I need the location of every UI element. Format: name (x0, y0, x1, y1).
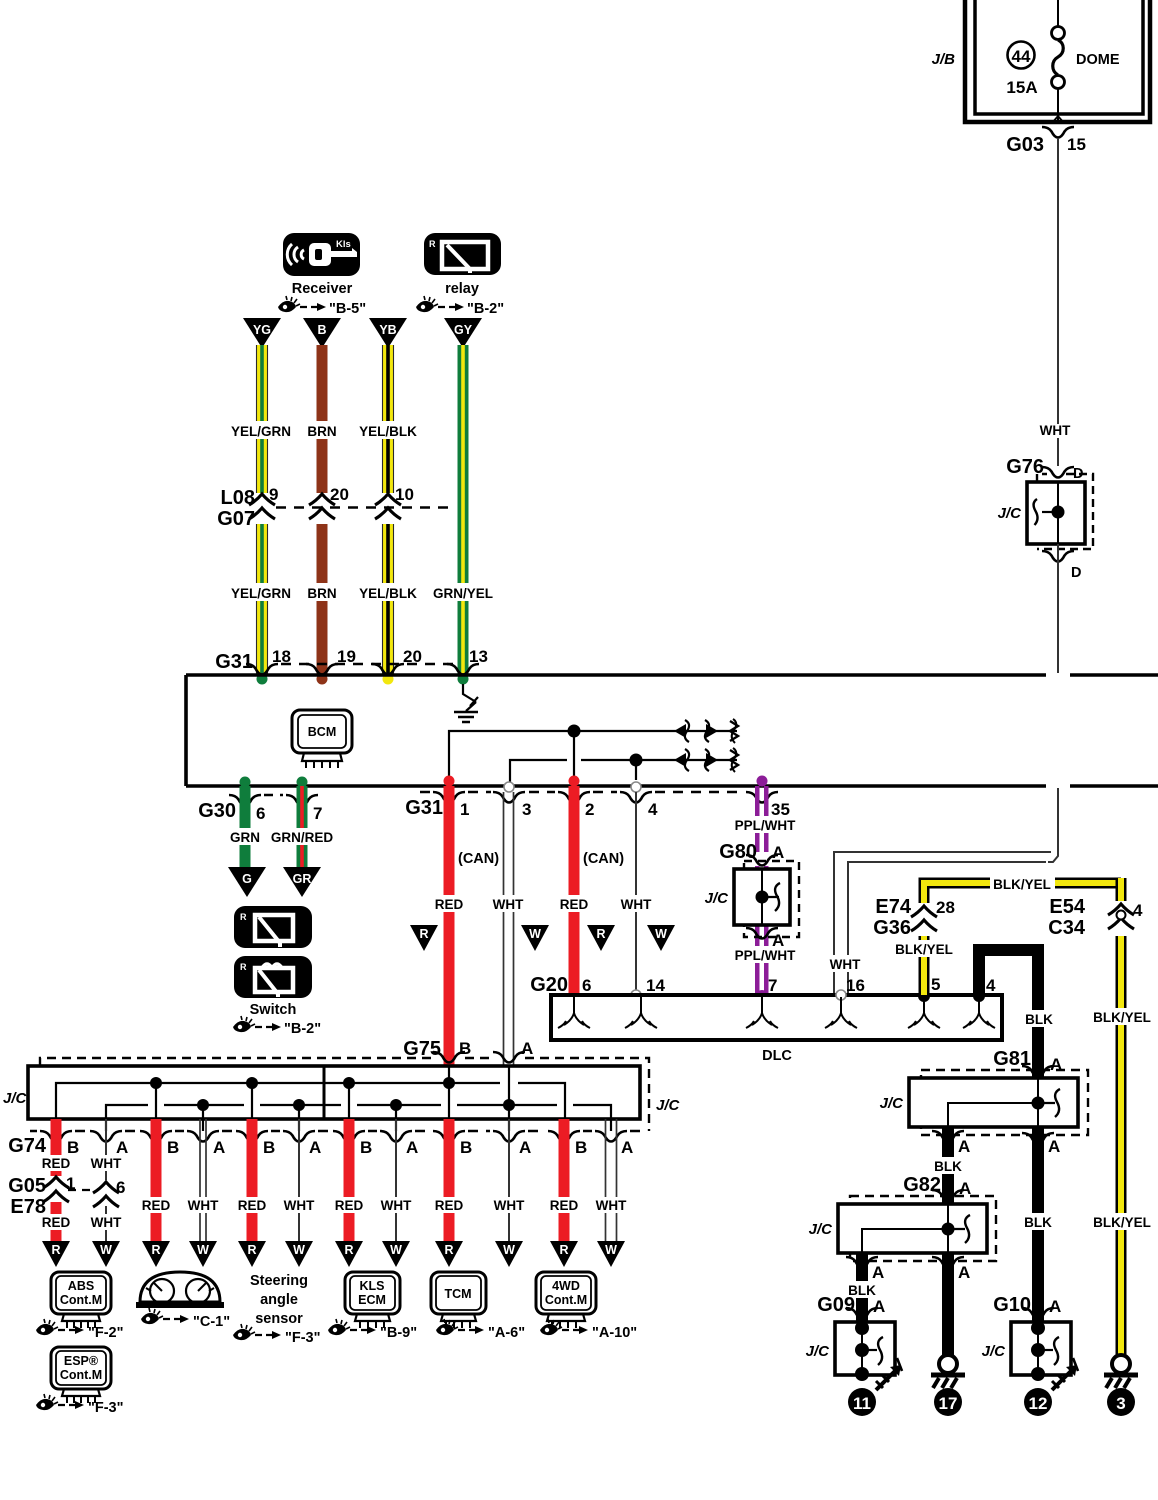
svg-text:A: A (873, 1297, 885, 1316)
svg-text:GRN/YEL: GRN/YEL (433, 586, 493, 601)
svg-text:4WD: 4WD (552, 1279, 580, 1293)
svg-text:G09: G09 (817, 1294, 855, 1316)
svg-text:G81: G81 (993, 1048, 1031, 1070)
svg-text:G80: G80 (719, 841, 757, 863)
destination triangle GY (444, 318, 482, 348)
eye ref B-9 (328, 1319, 417, 1341)
svg-text:PPL/WHT: PPL/WHT (735, 948, 796, 963)
connector G80 A (bottom) (746, 928, 784, 950)
BCM box outline (186, 675, 1158, 786)
svg-text:J/C: J/C (998, 505, 1023, 522)
connector G81 A (993, 1048, 1062, 1077)
ground number 12 (1024, 1388, 1052, 1416)
junction block J/B fuse box (965, 0, 1150, 122)
svg-text:J/B: J/B (932, 51, 956, 68)
junction connector G82 J/C box (809, 1196, 996, 1261)
wire GRN from G30 pin 6 (229, 786, 262, 868)
svg-text:"B-2": "B-2" (284, 1021, 321, 1037)
svg-text:R: R (429, 239, 436, 249)
wire RED B4 (330, 1119, 368, 1241)
svg-text:G31: G31 (405, 797, 443, 819)
svg-text:YEL/BLK: YEL/BLK (359, 424, 417, 439)
svg-text:W: W (197, 1243, 209, 1257)
svg-text:B: B (167, 1138, 179, 1157)
svg-text:L08: L08 (221, 487, 255, 509)
svg-text:WHT: WHT (494, 1198, 525, 1213)
svg-text:Receiver: Receiver (292, 281, 353, 297)
svg-text:12: 12 (1029, 1394, 1048, 1413)
svg-text:RED: RED (142, 1198, 171, 1213)
svg-text:G74: G74 (8, 1135, 47, 1157)
wire RED B3 (233, 1119, 271, 1241)
keyless receiver icon (283, 233, 360, 276)
svg-text:3: 3 (1116, 1394, 1125, 1413)
svg-text:WHT: WHT (596, 1198, 627, 1213)
svg-text:BLK/YEL: BLK/YEL (993, 877, 1051, 892)
svg-text:R: R (247, 1243, 256, 1257)
svg-text:7: 7 (768, 976, 777, 995)
wire WHT A4 (375, 1119, 418, 1241)
DLC pin 5 (908, 990, 940, 1028)
svg-text:A: A (872, 1263, 884, 1282)
svg-text:G75: G75 (403, 1038, 441, 1060)
svg-text:Switch: Switch (250, 1002, 297, 1018)
eye ref F-3 (steering) (233, 1324, 321, 1346)
ABS Cont.M module (51, 1272, 111, 1328)
svg-text:E78: E78 (10, 1196, 46, 1218)
svg-text:BLK/YEL: BLK/YEL (1093, 1010, 1151, 1025)
svg-text:W: W (390, 1243, 402, 1257)
svg-text:WHT: WHT (1040, 423, 1071, 438)
connector G76 D (bottom) (1042, 551, 1081, 581)
svg-text:R: R (444, 1243, 453, 1257)
svg-text:DLC: DLC (762, 1048, 792, 1064)
svg-text:E54: E54 (1049, 896, 1085, 918)
DLC pin 4 (963, 990, 995, 1028)
svg-text:A: A (519, 1138, 531, 1157)
wire WHT from G03 down to G76 (1057, 138, 1059, 424)
G81 exits A A (932, 1131, 1060, 1156)
J/C internal bottom bus (106, 1099, 611, 1131)
svg-text:WHT: WHT (830, 957, 861, 972)
svg-text:DOME: DOME (1076, 52, 1120, 68)
connector G31 bottom row (405, 776, 790, 820)
eye ref to B-2 (416, 296, 504, 317)
svg-text:B: B (460, 1138, 472, 1157)
connector G03 (1006, 127, 1086, 156)
wire WHT A1 (85, 1119, 128, 1241)
internal CAN bus line 1 (449, 719, 738, 786)
BCM module icon (292, 710, 352, 768)
DLC pin 14 (625, 997, 657, 1028)
DLC pin 6 (558, 997, 590, 1028)
junction connector G80 J/C box (705, 861, 799, 937)
svg-text:"B-9": "B-9" (380, 1325, 417, 1341)
svg-text:B: B (263, 1138, 275, 1157)
svg-text:R: R (240, 962, 247, 972)
svg-text:11: 11 (853, 1394, 871, 1413)
svg-text:7: 7 (313, 804, 322, 823)
svg-text:(CAN): (CAN) (583, 851, 624, 867)
svg-text:"F-3": "F-3" (285, 1330, 321, 1346)
svg-text:WHT: WHT (284, 1198, 315, 1213)
inline connector E74 G36 (873, 896, 955, 939)
svg-text:16: 16 (846, 976, 865, 995)
wire color labels row 1 (230, 421, 418, 439)
svg-text:BLK/YEL: BLK/YEL (1093, 1215, 1151, 1230)
svg-text:4: 4 (1133, 901, 1143, 920)
svg-text:J/C: J/C (982, 1343, 1007, 1360)
svg-text:D: D (1071, 565, 1081, 581)
wire WHT A6 (590, 1119, 633, 1241)
svg-text:19: 19 (337, 647, 356, 666)
fuse element symbol (1052, 0, 1065, 123)
svg-text:4: 4 (986, 976, 996, 995)
svg-text:9: 9 (269, 485, 278, 504)
rear wiper relay icon (424, 233, 501, 275)
svg-text:RED: RED (550, 1198, 579, 1213)
svg-text:BLK: BLK (1024, 1215, 1052, 1230)
svg-text:18: 18 (272, 647, 291, 666)
svg-text:"F-2": "F-2" (88, 1325, 124, 1341)
svg-text:2: 2 (585, 800, 594, 819)
svg-text:E74: E74 (875, 896, 911, 918)
svg-text:B: B (575, 1138, 587, 1157)
svg-text:20: 20 (403, 647, 422, 666)
svg-text:13: 13 (469, 647, 488, 666)
svg-text:J/C: J/C (806, 1343, 831, 1360)
wire RED B6 (545, 1119, 583, 1241)
wire WHT G31 pin3 to G75 A (hollow) (487, 792, 530, 1066)
destination triangle YB (369, 318, 407, 348)
svg-text:44: 44 (1012, 47, 1031, 66)
svg-text:B: B (459, 1039, 471, 1058)
svg-text:R: R (596, 927, 605, 941)
eye ref A-10 (540, 1319, 637, 1341)
svg-text:B: B (67, 1138, 79, 1157)
svg-text:W: W (529, 927, 541, 941)
svg-text:G31: G31 (215, 651, 253, 673)
svg-text:YEL/GRN: YEL/GRN (231, 424, 291, 439)
svg-text:GR: GR (293, 872, 312, 886)
ground number 11 (848, 1388, 876, 1416)
body ground arrow at G09 (876, 1358, 902, 1390)
ground number 17 (934, 1388, 962, 1416)
KLS ECM module (345, 1272, 400, 1328)
inline connector G05 E78 (8, 1174, 125, 1218)
svg-text:6: 6 (256, 804, 265, 823)
wire GRN/YEL vertical (458, 345, 469, 685)
svg-text:J/C: J/C (656, 1097, 681, 1114)
svg-text:1: 1 (66, 1174, 75, 1193)
svg-text:W: W (605, 1243, 617, 1257)
connector G10 A (993, 1294, 1061, 1319)
J/C internal verticals (156, 1066, 509, 1131)
eye ref F-3 (ESP) (36, 1394, 124, 1416)
wire RED G31 pin1 to G75 B (430, 786, 499, 1066)
svg-text:A: A (213, 1138, 225, 1157)
svg-text:Cont.M: Cont.M (60, 1368, 102, 1382)
TCM module (431, 1272, 486, 1328)
svg-text:"A-10": "A-10" (592, 1325, 637, 1341)
svg-text:RED: RED (435, 897, 464, 912)
svg-text:A: A (1048, 1137, 1060, 1156)
wire BLK/YEL E54 C34 down right side (1090, 878, 1154, 1355)
svg-text:RED: RED (335, 1198, 364, 1213)
svg-text:J/C: J/C (809, 1221, 834, 1238)
svg-text:Cont.M: Cont.M (60, 1293, 102, 1307)
svg-text:RED: RED (42, 1156, 71, 1171)
body ground arrow at G10 (1052, 1358, 1078, 1390)
wire BLK from DLC 4 loop to G81 (979, 950, 1038, 1078)
svg-text:6: 6 (116, 1178, 125, 1197)
svg-text:A: A (1049, 1297, 1061, 1316)
svg-text:17: 17 (939, 1394, 958, 1413)
destination triangle W (pin4) (647, 925, 675, 951)
destination triangle G (228, 867, 266, 897)
svg-text:A: A (309, 1138, 321, 1157)
svg-text:WHT: WHT (621, 897, 652, 912)
svg-text:J/C: J/C (3, 1090, 28, 1107)
svg-text:ECM: ECM (358, 1293, 386, 1307)
svg-text:(CAN): (CAN) (458, 851, 499, 867)
chassis ground 17 (931, 1355, 965, 1388)
svg-text:A: A (406, 1138, 418, 1157)
svg-text:YEL/GRN: YEL/GRN (231, 586, 291, 601)
svg-text:G05: G05 (8, 1175, 46, 1197)
wire GRN/RED from G30 pin 7 (271, 786, 334, 868)
svg-text:BRN: BRN (307, 586, 336, 601)
wire WHT G31 pin4 to DLC 14 (615, 792, 658, 1000)
junction connector long J/C box (3, 1058, 681, 1131)
svg-text:A: A (958, 1263, 970, 1282)
svg-text:"B-5": "B-5" (329, 301, 366, 317)
svg-text:A: A (772, 843, 784, 862)
svg-text:WHT: WHT (188, 1198, 219, 1213)
svg-text:J/C: J/C (705, 890, 730, 907)
ESP Cont.M module (51, 1347, 111, 1403)
inline connector E54 C34 (1048, 896, 1143, 939)
svg-text:WHT: WHT (381, 1198, 412, 1213)
DLC pin 16 (825, 990, 857, 1028)
svg-text:B: B (317, 323, 326, 337)
destination triangle W (pin3) (521, 925, 549, 951)
svg-text:4: 4 (648, 800, 658, 819)
svg-text:PPL/WHT: PPL/WHT (735, 818, 796, 833)
connector G80 A (top) (719, 841, 784, 866)
svg-text:14: 14 (646, 976, 665, 995)
svg-text:Cont.M: Cont.M (545, 1293, 587, 1307)
wire WHT A3 (278, 1119, 321, 1241)
destination triangle R (pin1) (410, 925, 438, 951)
svg-text:W: W (293, 1243, 305, 1257)
svg-text:G: G (242, 872, 252, 886)
destination triangle YG (243, 318, 281, 348)
wire WHT from G76 down (gap across BCM box) (1057, 544, 1059, 673)
svg-text:G20: G20 (530, 974, 568, 996)
svg-text:WHT: WHT (91, 1215, 122, 1230)
internal ground with transistor symbol under pin 13 (454, 684, 478, 722)
junction connector G10 J/C box (982, 1321, 1071, 1381)
svg-text:sensor: sensor (255, 1311, 303, 1327)
rear wiper switch icon (234, 906, 312, 948)
svg-text:G82: G82 (903, 1174, 941, 1196)
svg-text:YEL/BLK: YEL/BLK (359, 586, 417, 601)
connector G82 A (903, 1174, 971, 1201)
fuse 44 circled number (1008, 42, 1035, 69)
wire BLK G82 to ground 17 (942, 1253, 954, 1356)
svg-text:TCM: TCM (444, 1287, 471, 1301)
svg-text:ESP®: ESP® (64, 1354, 99, 1368)
wire WHT A5 (488, 1119, 531, 1241)
Steering angle sensor label (250, 1273, 308, 1327)
svg-text:3: 3 (522, 800, 531, 819)
svg-text:BLK: BLK (1025, 1012, 1053, 1027)
svg-text:5: 5 (931, 975, 940, 994)
svg-text:20: 20 (330, 485, 349, 504)
svg-text:RED: RED (42, 1215, 71, 1230)
svg-text:G10: G10 (993, 1294, 1031, 1316)
rear washer switch icon (234, 956, 312, 998)
svg-text:A: A (621, 1138, 633, 1157)
destination triangles row R W (42, 1241, 625, 1267)
svg-text:10: 10 (395, 485, 414, 504)
svg-text:YB: YB (379, 323, 396, 337)
wire WHT hollow run to DLC pin 16 (834, 852, 1051, 995)
svg-text:R: R (419, 927, 428, 941)
svg-text:W: W (100, 1243, 112, 1257)
G82 exits A A (846, 1257, 970, 1282)
wire BRN vertical (317, 345, 328, 685)
svg-text:ABS: ABS (68, 1279, 94, 1293)
DLC box (551, 995, 1002, 1040)
svg-text:RED: RED (238, 1198, 267, 1213)
chassis ground 3 (BLK/YEL) (1104, 1355, 1138, 1388)
svg-text:GY: GY (454, 323, 473, 337)
svg-text:Steering: Steering (250, 1273, 308, 1289)
J/C internal top bus (56, 1077, 565, 1131)
svg-text:6: 6 (582, 976, 591, 995)
svg-text:A: A (521, 1039, 533, 1058)
svg-text:W: W (655, 927, 667, 941)
svg-text:GRN: GRN (230, 830, 260, 845)
svg-text:G07: G07 (217, 508, 255, 530)
inline connector L08 G07 (217, 485, 455, 530)
svg-text:C34: C34 (1048, 917, 1086, 939)
svg-text:WHT: WHT (91, 1156, 122, 1171)
wire WHT A2 (182, 1119, 225, 1241)
svg-text:G36: G36 (873, 917, 911, 939)
eye ref A-6 (436, 1319, 525, 1341)
wire BLK G81 to G10 (1021, 1127, 1055, 1322)
wire RED B5 (430, 1119, 468, 1241)
instrument cluster icon (136, 1272, 224, 1308)
svg-text:RED: RED (560, 897, 589, 912)
destination triangle B (303, 318, 341, 348)
svg-text:B: B (360, 1138, 372, 1157)
svg-text:A: A (116, 1138, 128, 1157)
svg-text:15A: 15A (1006, 78, 1037, 97)
svg-text:relay: relay (445, 281, 479, 297)
wire YEL/GRN vertical (257, 345, 268, 685)
connector G31 top row (215, 647, 488, 675)
svg-text:BCM: BCM (308, 725, 336, 739)
4WD Cont.M module (536, 1272, 596, 1328)
svg-text:15: 15 (1067, 135, 1086, 154)
wire BLK/YEL E74 G36 to DLC 5 (893, 875, 1121, 995)
svg-text:BLK/YEL: BLK/YEL (895, 942, 953, 957)
wire color labels row 2 (230, 583, 493, 601)
svg-text:BLK: BLK (934, 1159, 962, 1174)
destination triangle R (pin2) (587, 925, 615, 951)
eye ref C-1 (141, 1308, 230, 1330)
junction connector G09 J/C box (806, 1321, 895, 1381)
svg-text:A: A (958, 1137, 970, 1156)
internal CAN bus line 2 (510, 748, 738, 786)
svg-text:R: R (51, 1243, 60, 1257)
connector G75 row (403, 1038, 533, 1063)
connector G30 row (198, 777, 322, 824)
eye ref to B-5 (278, 296, 366, 317)
svg-text:YG: YG (253, 323, 271, 337)
wire YEL/BLK vertical (383, 345, 394, 685)
svg-text:WHT: WHT (493, 897, 524, 912)
svg-text:KLS: KLS (360, 1279, 385, 1293)
svg-text:angle: angle (260, 1292, 298, 1308)
WHT label above DLC pin 16 (824, 955, 867, 972)
svg-text:J/C: J/C (880, 1095, 905, 1112)
svg-text:"F-3": "F-3" (88, 1400, 124, 1416)
svg-text:BRN: BRN (307, 424, 336, 439)
svg-text:R: R (559, 1243, 568, 1257)
svg-text:Kls: Kls (336, 239, 351, 250)
svg-text:GRN/RED: GRN/RED (271, 830, 334, 845)
wire RED G31 pin2 to DLC 6 (555, 786, 624, 1002)
svg-text:R: R (344, 1243, 353, 1257)
eye ref F-2 (36, 1319, 124, 1341)
wire RED B2 (137, 1119, 175, 1241)
svg-text:R: R (151, 1243, 160, 1257)
svg-text:A: A (772, 931, 784, 950)
svg-text:G30: G30 (198, 800, 236, 822)
connector G20 labels (530, 974, 996, 996)
ground number 3 (1107, 1388, 1135, 1416)
svg-text:"B-2": "B-2" (467, 301, 504, 317)
wire BLK G82 to G09 (845, 1253, 879, 1322)
connector G74 row (8, 1131, 648, 1157)
wire RED B1 (37, 1119, 75, 1241)
eye ref to B-2 (233, 1016, 321, 1037)
svg-text:"C-1": "C-1" (193, 1314, 230, 1330)
svg-text:W: W (503, 1243, 515, 1257)
DLC pin 7 (746, 997, 778, 1028)
BLK label (1023, 1010, 1056, 1027)
svg-text:RED: RED (435, 1198, 464, 1213)
wire BLK G81 to G82 (931, 1127, 965, 1204)
svg-text:R: R (240, 912, 247, 922)
svg-text:28: 28 (936, 898, 955, 917)
connector G09 A (817, 1294, 885, 1319)
svg-text:"A-6": "A-6" (488, 1325, 525, 1341)
wire PPL/WHT G31 pin35 to DLC 7 (734, 786, 796, 1002)
svg-text:G76: G76 (1006, 456, 1044, 478)
svg-text:1: 1 (460, 800, 469, 819)
junction connector G81 J/C box (880, 1070, 1088, 1135)
connector G76 D (top) (1006, 456, 1083, 482)
svg-text:G03: G03 (1006, 134, 1044, 156)
destination triangle GR (283, 867, 321, 897)
junction connector G76 J/C box (998, 474, 1093, 549)
